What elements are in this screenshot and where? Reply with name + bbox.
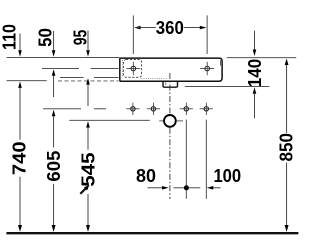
- dimension 50 upper arrow: [52, 31, 56, 57]
- dimension 140 label: [245, 59, 265, 88]
- dimension 140 upper arrow: [253, 31, 257, 56]
- dimension 850 lower line and floor arrow: [285, 163, 289, 232]
- dimension 545 label: [78, 152, 98, 186]
- dimension 360 extension line right: [206, 15, 208, 54]
- drain centerline upper: [169, 73, 171, 114]
- dimension 50 lower arrow: [52, 69, 56, 97]
- dimension 545 diagonal arrow: [80, 185, 89, 194]
- extension line from hole c3: [185, 120, 187, 199]
- svg-text:360: 360: [156, 18, 184, 38]
- wire right lower reference line (140 bottom ref): [185, 85, 269, 87]
- svg-text:50: 50: [35, 28, 55, 47]
- dimension 360 extension line left: [132, 15, 134, 54]
- wire 95 reference line: [60, 76, 119, 78]
- drain tab under basin: [163, 81, 178, 87]
- mounting hole c1: [126, 103, 139, 115]
- svg-text:605: 605: [44, 151, 64, 182]
- dimension 80 label: [136, 166, 156, 186]
- dimension 605 upper arrow: [52, 110, 56, 148]
- dimension 100 arrow and line: [207, 186, 221, 190]
- dimension 605 lower line and floor arrow: [52, 184, 56, 232]
- dimension 360 label: [156, 18, 184, 38]
- dimension 50 label: [35, 28, 55, 47]
- svg-text:140: 140: [245, 59, 265, 88]
- washbasin inner rim tick: [219, 60, 221, 65]
- mounting hole c2: [147, 103, 160, 115]
- dimension 740 label: [9, 141, 29, 175]
- dimension 95 upper arrow: [86, 31, 90, 57]
- svg-text:100: 100: [213, 166, 241, 186]
- extension line from hole c4: [205, 120, 207, 199]
- dimension 545 lower line and floor arrow: [86, 194, 90, 232]
- dimension 110 upper arrow: [18, 34, 22, 57]
- crosshair left mounting point: [126, 62, 140, 75]
- dimension 110 label: [0, 24, 20, 50]
- washbasin left hatch stipple: [121, 60, 123, 78]
- wire basin bottom reference line (110 ref): [7, 80, 47, 82]
- dimension 740 lower line and floor arrow: [18, 177, 22, 232]
- wire dashed basin-bottom extension: [58, 80, 119, 82]
- svg-text:80: 80: [136, 166, 156, 186]
- dimension 850 label: [277, 133, 297, 162]
- svg-text:850: 850: [277, 133, 297, 162]
- drain circle: [159, 115, 183, 127]
- wire mounting-hole level line: [43, 108, 106, 110]
- drain centerline lower: [169, 128, 171, 199]
- dimension 110 lower arrow: [18, 81, 22, 139]
- dimension 95 label: [71, 30, 91, 46]
- svg-text:110: 110: [0, 24, 20, 50]
- crosshair right mounting point: [200, 62, 214, 75]
- mounting hole c4: [200, 103, 213, 115]
- floor line: [6, 232, 298, 234]
- mounting hole c3: [180, 103, 193, 115]
- dimension 140 lower arrow: [253, 87, 257, 118]
- washbasin bowl hidden outline (dashed): [124, 60, 142, 78]
- dimension 95 lower arrow: [86, 78, 90, 106]
- dimension 360 line and arrows: [134, 26, 206, 30]
- dimension separator dot: [174, 185, 201, 190]
- wire tap-hole level line (50 ref): [42, 67, 119, 69]
- wire right top reference line (140/850 ref): [227, 57, 297, 59]
- washbasin outline: [120, 58, 222, 81]
- dimension 605 label: [44, 151, 64, 182]
- svg-text:545: 545: [78, 152, 98, 186]
- svg-text:740: 740: [9, 141, 29, 175]
- dimension 545 upper arrow: [86, 121, 90, 150]
- wire drain level line (545 ref): [69, 119, 150, 121]
- washbasin bottom hatch stipple: [142, 77, 167, 79]
- dimension 100 label: [213, 166, 241, 186]
- wire top reference line left: [7, 57, 120, 59]
- dimension 80 line and arrow: [148, 186, 169, 190]
- dimension 850 upper arrow: [285, 59, 289, 133]
